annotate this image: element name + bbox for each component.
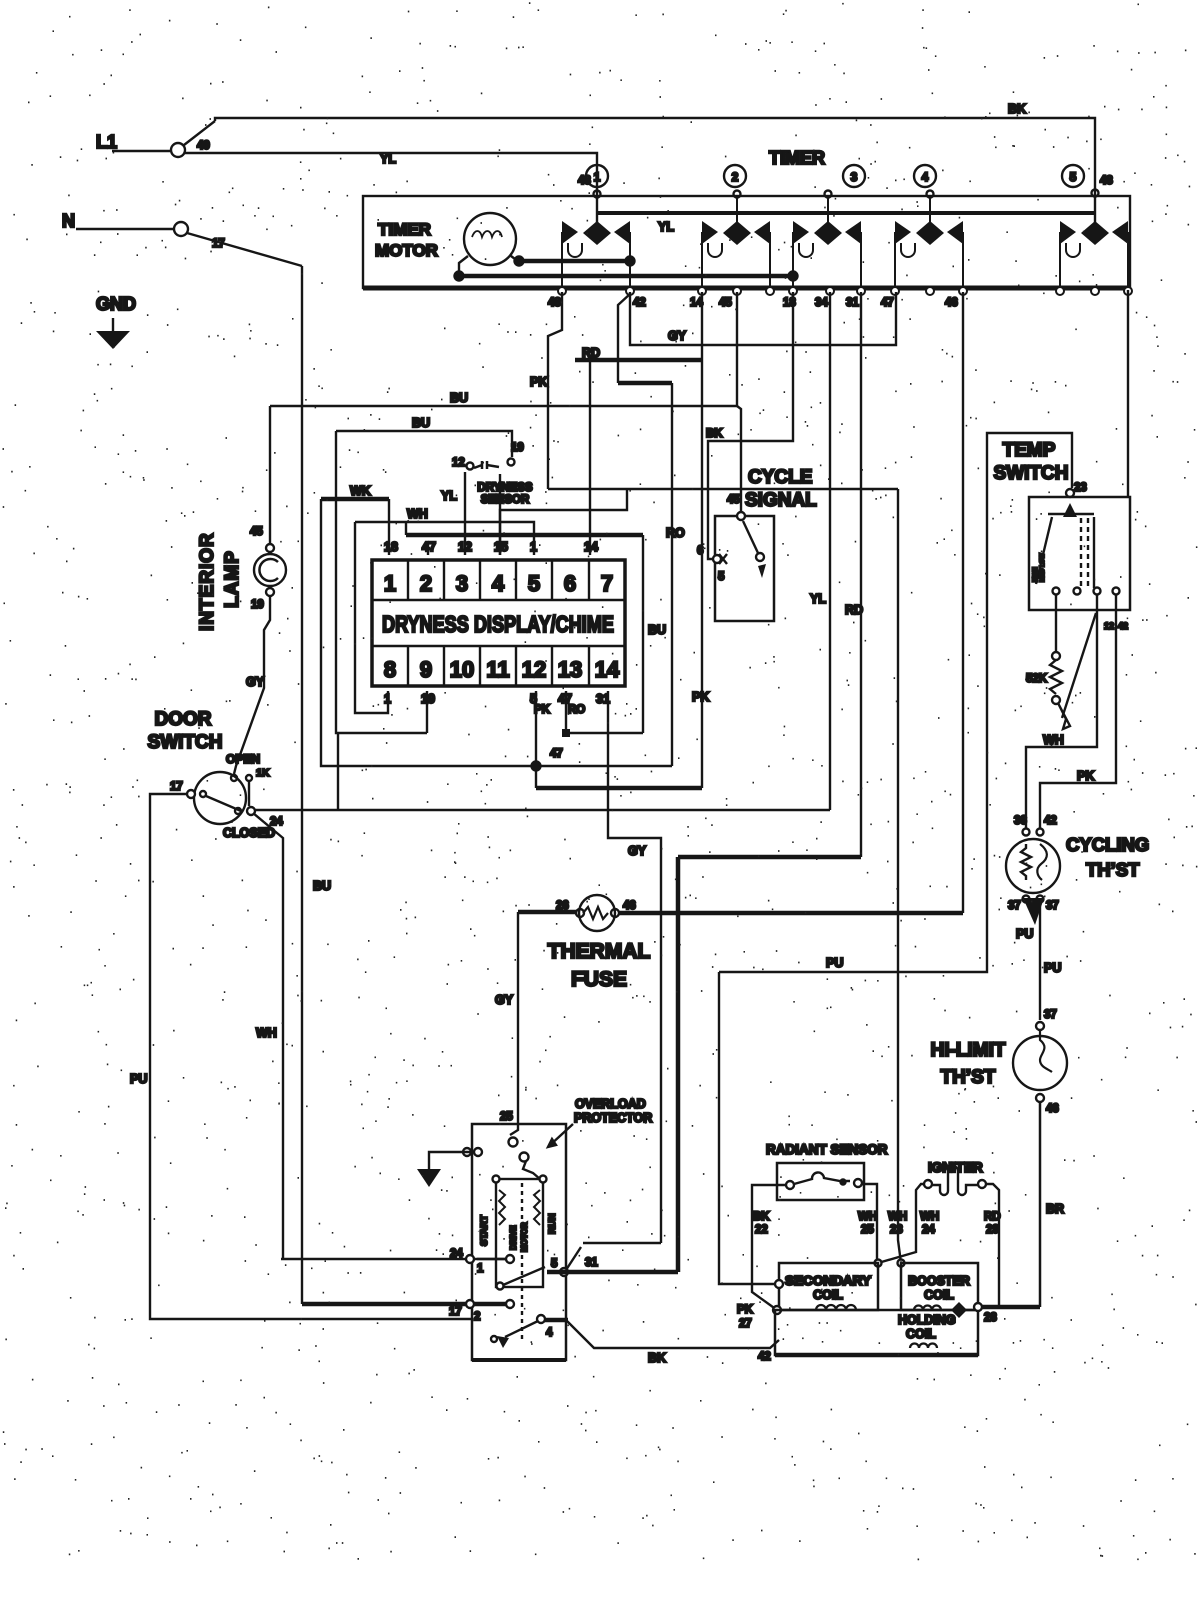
svg-text:SWITCH: SWITCH <box>994 463 1069 484</box>
wire BR to booster 28 <box>978 1305 1040 1310</box>
wire BU long left vertical <box>337 733 339 810</box>
temp switch box <box>1029 497 1130 610</box>
svg-text:HOLDING: HOLDING <box>898 1313 956 1327</box>
motor terminal 4 blade <box>537 1315 545 1323</box>
svg-text:24: 24 <box>450 1248 463 1260</box>
svg-text:48: 48 <box>548 297 561 309</box>
svg-text:4: 4 <box>546 1327 553 1339</box>
wire pin 19 down <box>426 691 428 733</box>
svg-text:17: 17 <box>170 781 183 793</box>
wire timer 14 down to WK loop <box>701 292 703 788</box>
svg-text:12: 12 <box>522 657 546 682</box>
svg-text:5: 5 <box>551 1258 558 1270</box>
svg-text:BU: BU <box>648 623 666 637</box>
wire 46 thick run <box>518 910 578 915</box>
svg-text:5: 5 <box>718 571 725 583</box>
svg-text:2: 2 <box>474 1311 480 1323</box>
svg-text:MOTOR: MOTOR <box>375 241 438 260</box>
svg-text:13: 13 <box>558 657 582 682</box>
wire GY jumper 42-47 <box>630 292 896 345</box>
wire 48/PK jog <box>548 292 562 489</box>
svg-text:WH: WH <box>1043 733 1064 747</box>
wire BK top run <box>215 118 1095 234</box>
svg-text:45: 45 <box>250 526 263 538</box>
temp switch resistor leg <box>1055 594 1057 652</box>
svg-text:22: 22 <box>755 1224 768 1236</box>
svg-text:CYCLING: CYCLING <box>1066 834 1149 855</box>
svg-text:37: 37 <box>1008 900 1021 912</box>
svg-text:48: 48 <box>1100 175 1113 187</box>
wire cycling to hi-limit <box>1039 902 1041 1020</box>
wire igniter right RD29 <box>986 1184 999 1307</box>
svg-text:SENSOR: SENSOR <box>481 494 530 506</box>
svg-text:GY: GY <box>628 844 647 858</box>
svg-text:1: 1 <box>384 571 396 596</box>
wire L1 switch blade to BK <box>184 121 215 145</box>
svg-text:23: 23 <box>890 1224 903 1236</box>
svg-text:37: 37 <box>1044 1009 1057 1021</box>
svg-text:YL: YL <box>441 489 457 503</box>
svg-text:18: 18 <box>783 297 796 309</box>
wire sensor left down to pin 12 <box>464 472 466 555</box>
svg-text:2: 2 <box>420 571 432 596</box>
svg-text:29: 29 <box>986 1224 999 1236</box>
svg-text:CLOSED: CLOSED <box>223 826 275 840</box>
svg-text:WH: WH <box>920 1211 939 1223</box>
svg-text:10: 10 <box>450 657 474 682</box>
timer contact group 3 <box>793 196 861 290</box>
wire timer 45 to BU corner <box>736 292 738 406</box>
svg-text:12: 12 <box>1104 621 1114 631</box>
svg-text:TH’ST: TH’ST <box>941 1067 996 1088</box>
svg-text:PU: PU <box>130 1072 147 1086</box>
svg-text:1: 1 <box>477 1263 484 1275</box>
wire YL to timer <box>184 153 597 223</box>
svg-text:DOOR: DOOR <box>155 709 212 730</box>
wire timer inner bus upper <box>519 259 630 264</box>
wire timer 5 right edge down to temp switch <box>1127 290 1129 496</box>
svg-text:26: 26 <box>556 900 569 912</box>
svg-text:THERMAL: THERMAL <box>548 940 651 963</box>
svg-text:CYCLE: CYCLE <box>748 467 812 488</box>
svg-text:PU: PU <box>826 956 843 970</box>
svg-text:LAMP: LAMP <box>222 550 243 608</box>
svg-text:19: 19 <box>251 599 264 611</box>
L1 switch terminal <box>171 143 185 157</box>
svg-text:TEMP: TEMP <box>1003 440 1056 461</box>
svg-text:46: 46 <box>945 297 958 309</box>
svg-text:BK: BK <box>706 428 723 440</box>
svg-text:PK: PK <box>530 375 547 389</box>
motor inner box <box>496 1179 543 1287</box>
wire timer 31 RD long <box>860 292 862 857</box>
wire BU sensor loop <box>336 431 512 457</box>
wire sensor right down to pin 15 <box>499 474 501 555</box>
svg-text:WH: WH <box>256 1026 277 1040</box>
timer bottom terminals <box>558 287 566 295</box>
wire PK temp to cycling <box>1040 594 1116 828</box>
wire timer top bus YL <box>597 211 1095 215</box>
ground at motor <box>463 1148 471 1156</box>
wire PU temp switch hook <box>719 433 1072 972</box>
svg-text:42: 42 <box>758 1351 771 1363</box>
svg-text:52K: 52K <box>1026 673 1048 685</box>
svg-text:6: 6 <box>564 571 576 596</box>
svg-text:YL: YL <box>810 592 826 606</box>
svg-text:2: 2 <box>732 170 739 184</box>
wire WK thick <box>321 497 389 502</box>
svg-text:3: 3 <box>851 170 858 184</box>
wire bar A left drop to display pin 14 <box>589 360 591 555</box>
node L1 <box>96 132 117 152</box>
svg-text:SWITCH: SWITCH <box>148 732 223 753</box>
svg-text:12: 12 <box>458 540 472 554</box>
svg-text:28: 28 <box>984 1312 997 1324</box>
dryness display block <box>372 560 625 686</box>
svg-text:37: 37 <box>1046 900 1059 912</box>
svg-text:42: 42 <box>633 297 646 309</box>
svg-text:WH: WH <box>858 1211 877 1223</box>
wire timer inner bus lower <box>459 274 793 279</box>
svg-text:11: 11 <box>486 657 509 682</box>
svg-text:BK: BK <box>648 1351 666 1365</box>
svg-text:PROTECTOR: PROTECTOR <box>574 1111 652 1125</box>
svg-text:1K: 1K <box>256 767 270 779</box>
svg-text:49: 49 <box>197 140 210 152</box>
motor switch box <box>472 1124 566 1360</box>
svg-text:MOTOR: MOTOR <box>520 1222 529 1252</box>
svg-text:46: 46 <box>1046 1103 1059 1115</box>
svg-text:48: 48 <box>578 175 591 187</box>
svg-text:24: 24 <box>922 1224 935 1236</box>
svg-text:COIL: COIL <box>924 1288 954 1302</box>
wire GY thermal fuse to overload <box>517 912 519 1124</box>
svg-text:23: 23 <box>1074 482 1087 494</box>
svg-text:RO: RO <box>666 526 685 540</box>
svg-text:PK: PK <box>1077 769 1094 783</box>
wire door closed to motor 1 <box>253 813 283 1259</box>
svg-text:L1: L1 <box>96 132 117 152</box>
svg-text:GY: GY <box>495 993 514 1007</box>
wire WH to pin 1 <box>355 522 534 555</box>
wire radiant right WH25 <box>862 1184 877 1263</box>
svg-text:DRYNESS DISPLAY/CHIME: DRYNESS DISPLAY/CHIME <box>382 611 614 637</box>
wire lamp top from BU <box>269 406 271 544</box>
svg-text:RD: RD <box>582 346 600 360</box>
svg-text:YL: YL <box>380 152 396 166</box>
svg-text:TIMER: TIMER <box>378 220 431 239</box>
svg-text:DRIVE: DRIVE <box>509 1225 518 1250</box>
motor terminal 2 <box>302 1302 506 1307</box>
svg-text:4: 4 <box>492 571 505 596</box>
svg-text:25: 25 <box>500 1111 513 1123</box>
N switch terminal <box>174 222 188 236</box>
wire timer 34 YL long <box>829 292 831 810</box>
wire BR hi-limit down <box>1039 1102 1042 1307</box>
svg-text:18: 18 <box>384 540 398 554</box>
svg-text:BU: BU <box>450 391 468 405</box>
temp switch blade <box>1062 613 1096 718</box>
wire WK loop lower <box>321 499 672 766</box>
svg-text:46: 46 <box>623 900 636 912</box>
wire neutral long vertical to motor switch 2 <box>301 266 303 1304</box>
wire 42 diag to RD bar <box>618 294 630 383</box>
cycle signal box <box>715 516 774 621</box>
door switch <box>194 772 246 824</box>
wire RD bar A <box>575 358 702 363</box>
svg-text:BK: BK <box>1008 102 1026 116</box>
svg-text:36: 36 <box>1014 815 1027 827</box>
svg-text:RD: RD <box>984 1211 1001 1223</box>
svg-text:31: 31 <box>585 1257 598 1269</box>
svg-text:GND: GND <box>96 294 136 314</box>
svg-text:42: 42 <box>1044 815 1057 827</box>
svg-text:INTERIOR: INTERIOR <box>197 532 218 631</box>
wire door common to timer 34 <box>255 809 830 811</box>
svg-text:1: 1 <box>384 692 391 706</box>
wire N lead <box>76 228 173 230</box>
timer motor leads <box>459 256 468 276</box>
interior lamp <box>266 544 274 552</box>
wire L1 lead <box>112 150 170 152</box>
svg-text:WH: WH <box>888 1211 907 1223</box>
svg-text:14: 14 <box>595 657 620 682</box>
secondary coil <box>779 1263 878 1310</box>
svg-text:RADIANT SENSOR: RADIANT SENSOR <box>766 1142 888 1157</box>
wire radiant left BK22 <box>752 1185 786 1310</box>
svg-text:19: 19 <box>511 442 524 454</box>
svg-text:PU: PU <box>1016 927 1033 941</box>
overload protector <box>510 1124 518 1135</box>
timer contact group 2 <box>702 196 770 290</box>
wire timer 46 down to thermal fuse <box>962 292 964 913</box>
svg-text:GY: GY <box>246 675 265 689</box>
wire pins 5/47 to RO <box>535 691 537 788</box>
svg-text:RUN: RUN <box>547 1213 558 1234</box>
svg-text:6: 6 <box>697 545 703 557</box>
svg-text:47: 47 <box>881 297 894 309</box>
svg-text:9: 9 <box>420 657 432 682</box>
wire timer 18 to cycle signal <box>708 292 793 559</box>
wire BU long <box>270 405 737 407</box>
svg-text:RO: RO <box>568 704 585 716</box>
svg-text:TIMER: TIMER <box>769 148 825 168</box>
timer box <box>363 196 1130 288</box>
svg-text:7: 7 <box>601 571 613 596</box>
wire N switch blade <box>187 233 302 266</box>
svg-text:TH’ST: TH’ST <box>1086 859 1140 880</box>
svg-text:HI-LIMIT: HI-LIMIT <box>931 1040 1006 1061</box>
svg-text:3: 3 <box>456 571 468 596</box>
svg-text:COIL: COIL <box>906 1327 936 1341</box>
svg-text:45: 45 <box>719 297 732 309</box>
wire WH temp to cycling <box>1026 594 1097 828</box>
wire WK drop to pin 18 <box>388 499 390 555</box>
timer contact group 4 <box>895 196 963 290</box>
timer contact group 5 <box>1060 196 1128 290</box>
svg-text:27: 27 <box>739 1318 752 1330</box>
svg-text:HIGH: HIGH <box>1033 567 1039 582</box>
svg-text:WK: WK <box>350 484 371 498</box>
svg-text:17: 17 <box>449 1306 462 1318</box>
svg-text:COIL: COIL <box>813 1288 843 1302</box>
svg-text:SIGNAL: SIGNAL <box>745 490 817 511</box>
wire drop to cycle signal <box>737 406 741 516</box>
wire lamp to door switch GY <box>234 596 270 774</box>
svg-text:DRYNESS: DRYNESS <box>477 482 532 494</box>
svg-text:5: 5 <box>1070 170 1077 184</box>
svg-text:1: 1 <box>594 170 601 184</box>
timer terminal circles 1-5 <box>586 165 608 187</box>
svg-text:N: N <box>62 211 75 231</box>
svg-text:PK: PK <box>737 1304 754 1316</box>
wire WH left leg down <box>355 522 388 713</box>
wire timer 47 WH23 long <box>898 489 901 1263</box>
svg-text:BR: BR <box>1046 1202 1064 1216</box>
svg-text:BOOSTER: BOOSTER <box>908 1274 970 1288</box>
svg-text:BK: BK <box>753 1211 770 1223</box>
wire PK bar B <box>618 381 672 386</box>
svg-text:YL: YL <box>658 220 674 234</box>
wire pin 31 to GY <box>608 691 661 1243</box>
svg-text:PU: PU <box>1044 961 1061 975</box>
svg-text:OVERLOAD: OVERLOAD <box>575 1097 646 1111</box>
svg-text:8: 8 <box>384 657 396 682</box>
svg-text:PK: PK <box>692 690 709 704</box>
svg-text:42: 42 <box>1118 621 1128 631</box>
svg-text:OPEN: OPEN <box>226 752 260 766</box>
svg-text:31: 31 <box>846 297 859 309</box>
holding coil <box>775 1310 978 1355</box>
svg-text:24: 24 <box>270 816 283 828</box>
wire door left to PU left column <box>150 794 471 1319</box>
svg-text:14: 14 <box>584 540 598 554</box>
wire RD 31 thick link <box>678 855 861 860</box>
svg-text:47: 47 <box>550 748 563 760</box>
svg-text:SECONDARY: SECONDARY <box>785 1274 872 1288</box>
svg-text:45: 45 <box>727 494 740 506</box>
wire igniter left WH24 <box>878 1184 924 1263</box>
wire RO vertical <box>671 383 673 766</box>
svg-text:34: 34 <box>815 297 828 309</box>
svg-text:RD: RD <box>845 603 863 617</box>
svg-text:5: 5 <box>528 571 540 596</box>
svg-text:1: 1 <box>530 540 537 554</box>
svg-text:MED LOW: MED LOW <box>1040 553 1046 582</box>
svg-text:WH: WH <box>407 507 428 521</box>
svg-text:4: 4 <box>922 170 929 184</box>
svg-text:FUSE: FUSE <box>571 968 627 991</box>
svg-text:BU: BU <box>412 416 430 430</box>
svg-text:12: 12 <box>452 457 465 469</box>
svg-text:BU: BU <box>313 879 331 893</box>
svg-text:START: START <box>479 1215 490 1246</box>
booster coil <box>901 1263 978 1310</box>
svg-text:25: 25 <box>861 1224 874 1236</box>
svg-text:GY: GY <box>668 329 687 343</box>
timer contact group 1 <box>562 196 630 290</box>
